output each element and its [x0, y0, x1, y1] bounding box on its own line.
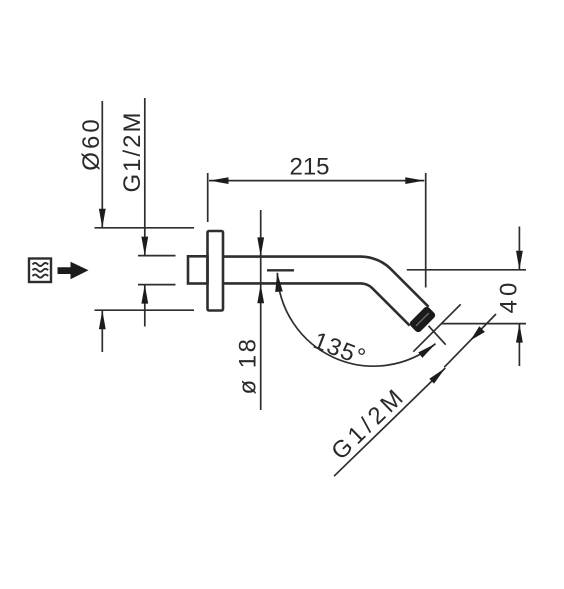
svg-text:Ø60: Ø60 — [78, 116, 105, 170]
dimension O60: dimension line — [101, 101, 103, 228]
flange (wall plate) — [208, 231, 224, 311]
dimension G1/2M left: arrowheads — [141, 237, 148, 304]
thread block G1/2M (wall side) — [188, 256, 208, 283]
dimension 40: extension lines — [407, 269, 526, 271]
dimension 215: extension lines — [207, 173, 209, 222]
dimension O60: arrowheads — [99, 209, 106, 329]
thread dim arrowhead — [468, 326, 485, 343]
svg-text:40: 40 — [496, 279, 523, 314]
svg-text:ø 18: ø 18 — [235, 336, 262, 394]
dimension 215: dimension line — [209, 180, 424, 182]
shower arm tube outline — [223, 257, 429, 307]
dimension o18: arrowheads — [257, 237, 264, 303]
tube centerline tick — [267, 269, 294, 271]
thread extension tick B (perpendicular to outlet axis) — [444, 314, 496, 367]
outlet axis segment — [429, 326, 446, 345]
thread extension tick A (perpendicular to outlet axis) — [413, 304, 460, 351]
dimension 40: dimension line — [518, 227, 520, 270]
dimension G1/2M left: extension ticks — [138, 255, 176, 257]
tube end cap (dark band) — [410, 307, 435, 332]
flow direction arrow — [58, 262, 89, 280]
dimension 40: arrowheads — [516, 251, 523, 343]
svg-text:G1/2M: G1/2M — [119, 110, 146, 192]
dimension 215: arrowheads — [210, 177, 425, 184]
arc arrowheads — [274, 272, 438, 357]
dimension G1/2M left: dimension line — [144, 98, 146, 256]
svg-text:215: 215 — [289, 154, 329, 181]
leader G1/2M outlet — [334, 368, 445, 476]
angle arc 135 — [277, 273, 435, 366]
dimension o18: dimension line — [260, 210, 262, 410]
wall symbol icon — [29, 259, 51, 283]
dimension O60: extension lines — [95, 227, 195, 229]
